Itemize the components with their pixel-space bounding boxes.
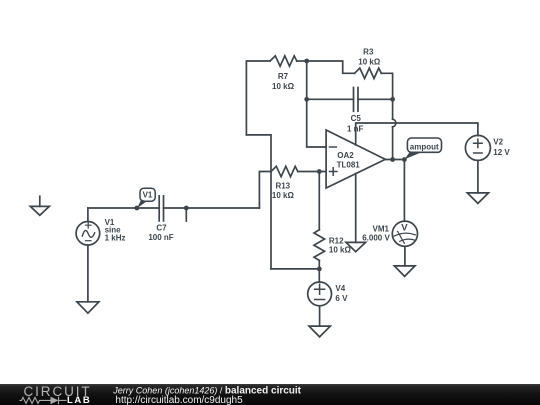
svg-text:V4: V4: [335, 284, 345, 293]
svg-text:6.000 V: 6.000 V: [362, 233, 390, 242]
svg-text:V2: V2: [493, 138, 503, 147]
svg-text:10 kΩ: 10 kΩ: [272, 82, 295, 91]
svg-text:V1: V1: [143, 190, 153, 199]
svg-text:ampout: ampout: [410, 142, 439, 151]
svg-text:R13: R13: [275, 182, 290, 191]
svg-text:VM1: VM1: [373, 224, 390, 233]
svg-text:1 kHz: 1 kHz: [105, 234, 126, 243]
svg-text:V: V: [401, 223, 408, 234]
svg-text:100 nF: 100 nF: [148, 233, 173, 242]
svg-text:TL081: TL081: [337, 161, 361, 170]
svg-text:R7: R7: [278, 72, 289, 81]
svg-text:C7: C7: [156, 224, 167, 233]
svg-text:12 V: 12 V: [493, 148, 510, 157]
svg-text:LAB: LAB: [67, 395, 91, 405]
svg-text:1 nF: 1 nF: [347, 125, 364, 134]
svg-text:C5: C5: [351, 114, 362, 123]
svg-text:10 kΩ: 10 kΩ: [329, 246, 352, 255]
svg-text:OA2: OA2: [337, 151, 354, 160]
svg-text:R3: R3: [363, 48, 374, 57]
svg-text:10 kΩ: 10 kΩ: [272, 191, 295, 200]
svg-text:10 kΩ: 10 kΩ: [358, 57, 381, 66]
svg-text:http://circuitlab.com/c9dugh5: http://circuitlab.com/c9dugh5: [115, 395, 243, 405]
svg-text:R12: R12: [329, 236, 344, 245]
svg-text:6 V: 6 V: [335, 294, 348, 303]
